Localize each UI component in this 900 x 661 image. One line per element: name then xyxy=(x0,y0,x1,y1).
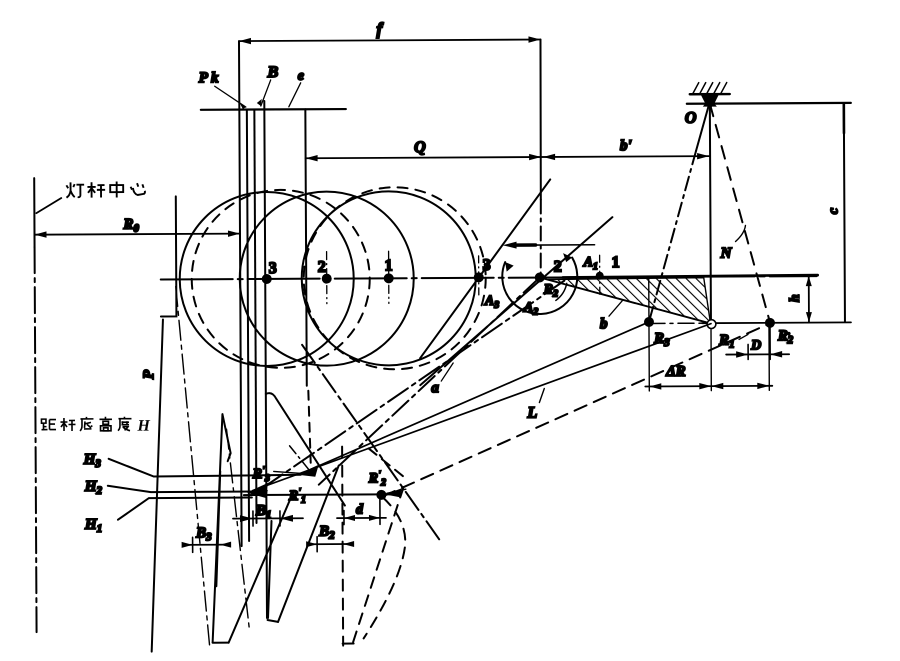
wire arm line R3 to R'3 xyxy=(301,322,650,473)
wire dashed line O to R3 xyxy=(696,102,710,151)
wire main horizontal centerline xyxy=(161,276,817,279)
wire dash-dot line a xyxy=(262,280,566,488)
node point 2' pivot xyxy=(535,273,545,283)
lamp blade 1 diagonal edge xyxy=(277,466,339,622)
CJK xyxy=(40,181,150,435)
svg-text:B: B xyxy=(267,64,279,81)
dimension deltaR xyxy=(648,278,651,391)
node label xin (heart) xyxy=(131,183,145,195)
circle dashed right xyxy=(303,187,486,370)
lamp blade 2 dashed bottom xyxy=(343,643,354,645)
wire tick through point 1' xyxy=(599,255,601,295)
svg-text:3: 3 xyxy=(269,260,277,277)
lamp blade 3 diagonal edge xyxy=(228,491,295,643)
node point 1' xyxy=(596,272,604,280)
circle position 2 solid xyxy=(239,191,414,366)
node arrowhead R'1 xyxy=(247,482,269,494)
node label deng (lamp) xyxy=(66,182,84,197)
wire small arc R2 xyxy=(556,283,567,300)
wire H2 leader and level line xyxy=(108,485,255,492)
TRIANGLE xyxy=(540,277,711,333)
svg-text:A3: A3 xyxy=(484,294,499,311)
wire arm line R1 to R'1 xyxy=(252,324,712,491)
wire top right horizontal from O xyxy=(687,102,851,105)
wire leader for lamp-pole-center label xyxy=(36,198,61,213)
node label ju (distance) xyxy=(41,419,56,430)
svg-text:e: e xyxy=(298,69,304,84)
lamp blade 1 left edge xyxy=(267,521,272,618)
svg-text:d: d xyxy=(356,502,364,517)
dimension Q and b' line xyxy=(306,156,709,158)
node R'2 point xyxy=(765,318,775,328)
wire angle arc A2 xyxy=(502,258,577,315)
svg-text:2: 2 xyxy=(318,259,326,276)
svg-text:R'2: R'2 xyxy=(368,469,386,488)
node step left end xyxy=(160,196,176,316)
svg-text:h: h xyxy=(788,294,803,302)
lamp blade 1 bottom xyxy=(268,620,279,622)
wire b leader xyxy=(609,300,623,316)
circle position 3 solid xyxy=(179,192,354,367)
svg-text:f: f xyxy=(376,19,384,38)
RIGHTSIDE xyxy=(643,82,853,391)
node label zhong (center) xyxy=(110,181,123,197)
lamp blade 3 top hook xyxy=(222,414,230,461)
node R'2' point xyxy=(376,490,386,500)
svg-text:N: N xyxy=(720,246,733,262)
svg-text:b: b xyxy=(600,316,608,332)
svg-text:O: O xyxy=(685,110,697,127)
lamp blade 2 dashed left edge xyxy=(342,447,343,646)
svg-text:H1: H1 xyxy=(84,517,102,535)
wire vertical from O down to R1 xyxy=(710,99,711,324)
node point 3 xyxy=(262,274,272,284)
wire a leader xyxy=(441,363,453,381)
svg-text:H3: H3 xyxy=(83,452,102,470)
node pivot O joint xyxy=(701,95,719,110)
wire pole top line xyxy=(201,108,346,111)
wire R1 leader tick xyxy=(739,334,748,339)
circle position 1 solid xyxy=(301,191,476,366)
svg-text:P k: P k xyxy=(199,70,219,86)
svg-text:B3: B3 xyxy=(195,525,212,543)
node point 1 xyxy=(384,273,394,283)
wire N leader arc xyxy=(735,225,745,241)
wire tick through point 2 xyxy=(326,252,328,304)
dimension d xyxy=(337,517,386,519)
wire diagonal through point 3' xyxy=(419,179,551,358)
lamp blade 3 bottom xyxy=(213,642,229,644)
POLE xyxy=(198,41,348,619)
svg-text:R0: R0 xyxy=(122,217,139,235)
wire pole wall 1 xyxy=(239,41,242,546)
wire Pk leader xyxy=(215,86,246,107)
svg-text:c: c xyxy=(826,207,841,214)
wire pole wall 3 xyxy=(254,110,256,523)
svg-text:R1: R1 xyxy=(718,333,735,351)
node point 3' xyxy=(474,272,484,282)
wire dashed line L from R'2' to R'2 xyxy=(382,323,771,496)
svg-text:A1: A1 xyxy=(583,255,598,272)
wire diagonal through pivot 2' xyxy=(419,217,613,385)
node label du (degree) xyxy=(118,417,132,431)
wire rotated axis dash-dot from pivot down-left xyxy=(318,278,541,485)
wire blade 1 tilted centerline xyxy=(227,429,250,631)
lamp blade 1 top hook curve xyxy=(266,393,345,506)
wire pole wall 2 xyxy=(247,110,249,541)
wire pole wall 4 xyxy=(264,101,267,618)
wire e reference vertical xyxy=(305,109,306,385)
wire e leader xyxy=(289,83,301,107)
node R3 point xyxy=(644,317,654,327)
wire dashed rotated blade outline xyxy=(363,497,406,638)
wire B leader xyxy=(261,80,271,106)
dimension B1 xyxy=(233,517,303,519)
wire H3 leader and level line xyxy=(109,458,301,477)
node arrowhead into R'2' xyxy=(385,488,402,497)
wire short dashed knee segment xyxy=(369,448,407,479)
circle dashed left xyxy=(191,189,370,368)
svg-text:D: D xyxy=(750,338,761,353)
node arrowhead R'3 xyxy=(298,465,319,477)
svg-text:a: a xyxy=(431,380,439,396)
MAIN_AXIS xyxy=(140,193,819,652)
lamp blade 3 left edge xyxy=(211,414,223,642)
node hatched wedge xyxy=(548,278,711,324)
ground fixed support at O xyxy=(690,93,730,96)
svg-text:R'1: R'1 xyxy=(288,487,306,506)
svg-text:H2: H2 xyxy=(84,479,103,497)
node label gan2 (pole) xyxy=(60,418,75,431)
svg-text:1: 1 xyxy=(612,254,620,271)
svg-text:H: H xyxy=(136,418,150,435)
wire left vertical reference line (H/P line) xyxy=(150,320,165,652)
dimension B2 xyxy=(309,543,351,545)
svg-text:R.2: R.2 xyxy=(777,326,794,346)
wire steep dash-dot line xyxy=(302,344,441,543)
wire lower right horizontal xyxy=(649,322,702,324)
wire rotation arrow pointing left xyxy=(510,244,595,246)
wire blade 3 tilted centerline xyxy=(176,286,210,646)
GROUP2 xyxy=(301,179,621,543)
svg-text:Q: Q xyxy=(414,139,426,156)
svg-text:b': b' xyxy=(620,138,632,154)
LONGLINES xyxy=(246,279,771,498)
TOPDIMS xyxy=(33,18,709,280)
CIRCLES xyxy=(179,187,486,371)
node label gao (height) xyxy=(99,417,112,431)
node label gan (pole) xyxy=(87,182,105,197)
node R1 point open xyxy=(707,320,716,329)
dimension R0 line xyxy=(34,234,239,235)
LEFTSIDE xyxy=(34,178,63,632)
wire H1 leader and level line xyxy=(118,498,252,520)
wire e reference vertical dashed lower part xyxy=(308,391,310,463)
node point 2 xyxy=(322,274,332,284)
dimension c vertical xyxy=(844,104,845,322)
wire horizontal line R'1 to R'2' xyxy=(244,493,400,496)
dimension B3 xyxy=(184,544,229,546)
svg-text:L: L xyxy=(526,405,537,422)
wire dashed curve O to R'2 xyxy=(710,103,770,322)
wire tick through point 1 xyxy=(388,251,390,303)
wire lamp pole centerline (vertical dash-dot at far left) xyxy=(33,178,35,247)
wire b line from pivot to R1 xyxy=(540,277,711,325)
svg-text:B2: B2 xyxy=(318,524,335,542)
dimension h vertical xyxy=(808,276,810,322)
node label di (bottom) xyxy=(80,417,94,431)
dimension D xyxy=(726,353,789,355)
wire tick through point 3' xyxy=(478,256,480,296)
wire L leader xyxy=(539,389,544,403)
lamp blade 3 right edge xyxy=(216,471,221,586)
BLADES xyxy=(176,285,407,646)
dimension f line xyxy=(239,40,540,42)
HBDIMS xyxy=(83,450,407,553)
svg-text:P: P xyxy=(141,369,157,379)
wire bold axis segment through hatched wedge xyxy=(563,275,818,277)
wire f right extension down to pivot 2' xyxy=(540,40,541,200)
lamp blade 2 dashed diagonal edge xyxy=(352,480,406,642)
